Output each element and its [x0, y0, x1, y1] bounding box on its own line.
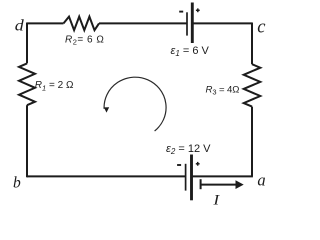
- wire: left side, node b to resistor R1: [26, 105, 28, 177]
- wire: left side, R1 to node d: [26, 23, 28, 64]
- loop arrow head: [104, 107, 109, 112]
- resistor R3: [244, 64, 261, 106]
- wire: bottom side, node a to battery e2: [192, 175, 253, 177]
- resistor R1: [19, 63, 35, 105]
- current arrow I tail bar: [200, 179, 202, 189]
- battery E1 minus sign: [179, 11, 183, 13]
- svg-text:R1 = 2 Ω: R1 = 2 Ω: [35, 80, 74, 92]
- svg-text:c: c: [257, 17, 266, 37]
- battery E2 plus sign: [196, 162, 200, 166]
- battery E1 negative plate (short): [186, 12, 188, 35]
- svg-text:d: d: [15, 18, 25, 35]
- wire: top side, R2 to battery e1: [99, 22, 187, 24]
- svg-text:a: a: [257, 171, 265, 190]
- battery E2 minus sign: [177, 164, 181, 166]
- svg-text:ε2 = 12 V: ε2 = 12 V: [166, 143, 211, 156]
- current arrow I shaft: [201, 184, 237, 186]
- wire: top side, node d to resistor R2: [27, 22, 64, 24]
- wire: right side, node c to resistor R3: [251, 23, 253, 65]
- battery E2 positive plate (long): [190, 155, 193, 201]
- resistor R2: [64, 17, 100, 31]
- wire: right side, R3 to node a: [251, 107, 253, 177]
- svg-text:ε1 = 6 V: ε1 = 6 V: [171, 45, 210, 58]
- svg-text:I: I: [212, 193, 220, 209]
- battery E1 positive plate (long): [191, 3, 194, 44]
- battery E1 plus sign: [196, 8, 200, 12]
- loop direction arrow (counterclockwise arc): [104, 77, 166, 131]
- battery E2 negative plate (short): [185, 164, 187, 191]
- svg-text:R3 = 4Ω: R3 = 4Ω: [206, 85, 240, 97]
- current arrow I head: [236, 180, 244, 189]
- wire: top side, battery e1 to node c: [192, 22, 252, 24]
- svg-text:R2= 6 Ω: R2= 6 Ω: [65, 34, 104, 46]
- svg-text:b: b: [13, 174, 21, 191]
- wire: bottom side, battery e2 to node b: [27, 175, 186, 177]
